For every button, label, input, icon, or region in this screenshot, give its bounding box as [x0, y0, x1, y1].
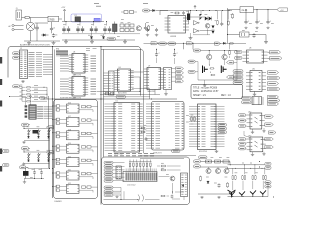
capacitor C6 pair [90, 22, 98, 33]
wire ground rail [24, 40, 60, 42]
IC U12 label [248, 111, 251, 113]
module box relay outputs [54, 100, 98, 199]
IC U2 opto driver [165, 16, 190, 39]
net label [218, 131, 227, 134]
wire [97, 92, 161, 95]
resistor R15 [160, 195, 165, 197]
IC U4 74HC595 [69, 52, 88, 77]
resistor fan R6 [22, 86, 47, 88]
ground [164, 90, 168, 96]
power flag +5V [277, 8, 288, 12]
title block [191, 85, 243, 99]
net label [235, 50, 243, 53]
svg-text:62LV256: 62LV256 [199, 151, 208, 153]
net label [20, 166, 29, 169]
wire rows [113, 163, 125, 181]
arrow label [269, 131, 277, 134]
net label [235, 56, 243, 59]
LCD connector J5 [123, 169, 157, 182]
wire bottom rail [62, 39, 135, 41]
net rows [91, 56, 97, 71]
crystal X1 [23, 167, 29, 178]
resistor R26 [227, 11, 229, 26]
net label [239, 138, 247, 141]
diode D15 [48, 160, 50, 162]
svg-text:J2: J2 [20, 48, 22, 50]
diode D5 [152, 9, 168, 15]
wire horizontal mid [44, 98, 177, 100]
arrow label [265, 145, 274, 148]
ground [27, 41, 31, 44]
capacitor C15 [266, 20, 272, 29]
capacitor C19 [145, 137, 148, 141]
wire [246, 10, 268, 20]
ground [251, 152, 254, 156]
diode D23 [223, 42, 234, 44]
IC U5 74HC595 [69, 75, 88, 100]
IC U11 ULN2003 [246, 71, 266, 92]
arrow label [227, 61, 238, 64]
wire rail [198, 193, 232, 195]
svg-text:K1: K1 [75, 15, 77, 17]
transistor Q7 [224, 168, 229, 173]
wire [233, 181, 268, 197]
ground [189, 37, 193, 40]
net rows [37, 106, 43, 118]
wire rows [44, 106, 53, 118]
connector J2 DB9 [20, 48, 28, 78]
arrow label [215, 42, 221, 45]
resistor R11 [191, 116, 196, 121]
ground [264, 41, 268, 44]
power flag +12V [61, 7, 66, 21]
svg-text:LM358: LM358 [170, 36, 177, 38]
transformer TR1 primary wires [9, 24, 24, 30]
arrow label TX [172, 67, 184, 70]
resistor R12 [140, 127, 145, 133]
net label [188, 70, 198, 73]
wire [184, 40, 228, 49]
capacitor C13 [244, 20, 250, 29]
relay K1 [75, 15, 81, 22]
connector J3 [164, 68, 172, 90]
net label [233, 81, 243, 84]
diode D3 [90, 34, 92, 39]
svg-text:U8: U8 [249, 48, 251, 50]
wire [62, 21, 104, 23]
net label POWER [3, 150, 10, 153]
net label [22, 147, 31, 150]
IC U8 label [249, 48, 251, 50]
switch SW5 [38, 153, 41, 160]
net stub [0, 57, 2, 64]
arrow label [47, 151, 54, 154]
IC U11 label [252, 69, 255, 71]
ground [23, 179, 26, 184]
capacitor C7 pair [103, 22, 111, 33]
resistor network RN1 [56, 49, 68, 57]
opto relay group G4 [52, 143, 97, 153]
svg-text:RN1: RN1 [56, 49, 59, 51]
capacitor C18 [173, 49, 179, 56]
opto relay group G5 [52, 156, 97, 166]
net label [107, 37, 116, 40]
arrow label [268, 95, 279, 98]
wire [104, 72, 151, 97]
resistor R16 [206, 160, 212, 163]
inner box edge [101, 49, 144, 153]
svg-text:74HC373: 74HC373 [153, 153, 162, 155]
arrow label [187, 42, 194, 45]
capacitor C10 [146, 28, 149, 36]
diode D12 [48, 136, 50, 138]
resistor fan R8 [22, 93, 47, 95]
selection highlight box [71, 14, 102, 22]
arrow label [268, 102, 279, 105]
wire rail bottom [228, 195, 269, 198]
resistor R2 row [120, 29, 134, 32]
wire rail [201, 162, 231, 165]
wire rail [24, 140, 50, 142]
wire rows [60, 79, 69, 94]
wire rows to bus [43, 55, 53, 75]
switch SW4 [28, 153, 31, 160]
ground [64, 40, 68, 43]
regulator U9 7805 [48, 16, 62, 22]
resistor R20 [227, 182, 229, 188]
svg-text:MAX232: MAX232 [148, 90, 157, 93]
transistor Q9 [229, 191, 235, 196]
capacitor C11 [155, 28, 158, 36]
ground up [22, 163, 25, 166]
transistor Q4 [170, 176, 175, 181]
wire rows [60, 56, 69, 71]
opto relay group G7 [52, 183, 97, 193]
bridge rectifier B1 [26, 18, 34, 42]
opto relay group G1 [52, 103, 97, 113]
transistor Q14 [222, 51, 227, 60]
arrow label RX [172, 71, 184, 74]
svg-text:ALIMENTATION SECTEUR 230V: ALIMENTATION SECTEUR 230V [20, 44, 50, 47]
power flag [194, 5, 196, 8]
resistor R1 row [120, 24, 134, 27]
net stub [0, 101, 2, 107]
net label [22, 123, 31, 126]
arrow label [268, 76, 281, 79]
svg-text:U6: U6 [119, 67, 121, 69]
arrow label CTS [172, 80, 184, 83]
wire [10, 97, 31, 106]
arrow label [265, 137, 274, 140]
wire [28, 167, 50, 168]
junction [52, 46, 102, 100]
fuse F1 [25, 16, 48, 18]
module box display [102, 157, 190, 205]
wire [228, 35, 267, 41]
capacitor column [25, 105, 28, 117]
wire rail [24, 163, 50, 165]
net label [239, 119, 247, 122]
resistor R30 pair [121, 11, 137, 14]
arrow label [268, 87, 281, 90]
transistor Q6 [215, 167, 220, 174]
resistor R23 [252, 165, 256, 180]
diode D6 zener [187, 11, 190, 25]
ground [200, 196, 203, 199]
resistor R14 [161, 169, 166, 171]
svg-text:U17: U17 [68, 116, 71, 118]
svg-text:U21: U21 [68, 170, 71, 172]
svg-text:78L05: 78L05 [241, 10, 248, 12]
net label [239, 142, 247, 145]
ground [123, 40, 127, 43]
net rows [91, 79, 97, 94]
arrow label [265, 115, 274, 118]
net label top [94, 4, 148, 7]
net label [40, 97, 46, 100]
diode D10 [28, 136, 30, 138]
IC U1 AT89S52 [105, 101, 143, 156]
net label [159, 42, 167, 45]
resistor R24 [262, 168, 266, 180]
wire [140, 156, 196, 159]
capacitor C1 [35, 23, 48, 41]
ground [52, 41, 56, 44]
capacitor C17 [155, 49, 161, 56]
net label [13, 56, 20, 59]
net label [239, 114, 247, 117]
wire [48, 96, 50, 168]
led D7 [205, 17, 208, 21]
resistor R22 [242, 165, 246, 180]
wire rail [228, 167, 265, 170]
svg-text:U18: U18 [68, 130, 71, 132]
arrow label [265, 123, 274, 126]
switch SW2 [38, 129, 41, 136]
net label [3, 164, 10, 167]
opto relay group G3 [52, 130, 97, 140]
net label [218, 123, 227, 126]
net label [168, 42, 176, 45]
svg-text:REV : 1.0: REV : 1.0 [221, 95, 232, 97]
ground [21, 80, 25, 83]
ground [115, 196, 118, 198]
net label [265, 181, 271, 184]
wire [144, 42, 247, 44]
power flag [29, 95, 31, 99]
svg-text:CLAVIER: CLAVIER [54, 200, 62, 203]
ground [251, 129, 254, 134]
net name rows 2 [36, 52, 42, 76]
transistor Q10 [239, 191, 245, 196]
capacitor C9 [182, 11, 185, 15]
wire [190, 11, 212, 31]
net label GND [188, 60, 198, 63]
module label [60, 97, 76, 100]
IC U20 DIP resnet [29, 105, 36, 119]
IC U14 EEPROM [152, 102, 185, 155]
module box CPU board [8, 47, 141, 96]
resistor R4 [174, 12, 180, 14]
arrow label [151, 42, 158, 45]
wire keypad bus [48, 128, 51, 169]
capacitor C14 [255, 20, 261, 29]
resistor fan R10 [22, 100, 47, 102]
wire rows [113, 187, 121, 195]
resistor R21 [232, 168, 236, 180]
connector J7 [109, 71, 115, 95]
arrow label [268, 57, 283, 60]
svg-text:C3: C3 [55, 35, 57, 37]
capacitor C2 [50, 22, 55, 31]
net label [239, 147, 247, 150]
logic gate U3A [194, 21, 200, 26]
resistor R17 [215, 160, 221, 163]
component value labels [20, 11, 274, 183]
wire [150, 58, 175, 100]
wire [62, 32, 140, 35]
svg-text:TITLE : mO2am PC808: TITLE : mO2am PC808 [193, 87, 218, 89]
net label VCC2 [265, 162, 271, 165]
arrow label [268, 82, 279, 85]
bus vertical mid pair [101, 47, 104, 205]
net label [242, 101, 252, 104]
transistor Q11 [250, 190, 256, 195]
module label bottom [54, 200, 62, 203]
wire rows [146, 104, 152, 148]
diode D4 [102, 34, 104, 39]
capacitor C16 [252, 33, 255, 37]
svg-text:C2: C2 [53, 28, 55, 30]
arrow label [268, 71, 279, 74]
IC U7 MAX232 [144, 66, 164, 93]
resistor R25 [216, 11, 218, 26]
net label GND2 [265, 166, 271, 169]
capacitor C4 pair [62, 22, 70, 33]
transistor Q12 [260, 190, 266, 195]
mosfet Q15 [203, 66, 208, 74]
capacitor C20 [33, 169, 36, 175]
capacitor C23 [217, 183, 220, 187]
opto relay group G2 [52, 116, 97, 126]
resistor R18 [223, 160, 229, 163]
capacitor C5 pair [76, 22, 84, 33]
net stub [0, 79, 2, 85]
wire [198, 51, 237, 81]
svg-text:U7: U7 [148, 66, 150, 68]
net name rows [29, 52, 35, 76]
wire rows [104, 73, 109, 94]
ground [215, 150, 219, 153]
capacitor C22 [171, 195, 174, 199]
net labels col 2 [104, 186, 113, 197]
capacitor C21 [40, 169, 43, 175]
arrow label [268, 51, 281, 54]
resistor R19 [200, 176, 202, 182]
wire [145, 183, 184, 200]
wire vcc feed [228, 8, 241, 40]
diode D16 zener [207, 181, 209, 183]
ground [203, 80, 207, 87]
trimmer RV2 [181, 173, 188, 197]
logic gate U3B [194, 29, 200, 34]
regulator U10 78L05 [240, 7, 277, 13]
switch SW1 [28, 129, 31, 136]
wire [244, 131, 250, 138]
diode D11 [38, 136, 40, 138]
transistor Q13 [207, 51, 212, 60]
label [127, 185, 135, 187]
resistor R5 [232, 13, 234, 19]
resistor R29 [229, 43, 231, 58]
capacitor C8 [144, 23, 147, 30]
wire [104, 193, 139, 200]
ground [262, 152, 265, 156]
resistor fan R7 [22, 90, 47, 92]
net label [233, 70, 243, 73]
buzzer BZ1 [33, 130, 39, 134]
resistor R28 [210, 72, 215, 76]
net stub [0, 149, 2, 155]
switch SW3 [48, 129, 51, 136]
bus net dashes [86, 48, 97, 50]
svg-text:SORTIES RELAIS: SORTIES RELAIS [60, 97, 76, 100]
svg-text:U22: U22 [68, 183, 71, 185]
diode D20 zener pair [200, 11, 203, 21]
transistor Q8 [228, 190, 236, 197]
net label [218, 127, 227, 130]
capacitor C12 [220, 11, 223, 27]
led D21 [212, 26, 215, 31]
transistor Q5 [206, 167, 211, 174]
net label [239, 124, 247, 127]
arrow label RTS [172, 75, 184, 78]
IC U8 6N137 [243, 50, 268, 63]
net label [199, 156, 208, 159]
svg-text:U4: U4 [73, 52, 75, 54]
arrow label [268, 99, 281, 102]
svg-text:U20: U20 [68, 156, 71, 158]
mosfet Q16 [221, 66, 226, 74]
led D9 [240, 32, 250, 37]
svg-text:J1: J1 [16, 8, 18, 10]
IC U15 RAM 6264 [189, 104, 225, 153]
ground [90, 40, 94, 43]
wire rail [201, 167, 228, 168]
resistor fan R9 [22, 97, 47, 99]
led D22 [212, 31, 215, 34]
ground [217, 196, 220, 199]
svg-text:U1: U1 [116, 101, 118, 103]
svg-text:DATE : 11/05/2011 13:57: DATE : 11/05/2011 13:57 [193, 90, 219, 93]
IC U13 TLP281 [247, 137, 266, 152]
diode D13 [28, 160, 30, 162]
net label [116, 95, 126, 98]
net label [172, 150, 181, 153]
resistor R3 [148, 25, 150, 31]
resistor network RN2 [129, 160, 152, 172]
svg-text:U5: U5 [73, 75, 75, 77]
arrow label [47, 126, 54, 129]
wire [157, 166, 181, 177]
connector J4 [252, 97, 264, 105]
transistor Q1 [136, 26, 141, 31]
wire rail [24, 175, 44, 179]
led D8 [209, 17, 212, 21]
svg-text:ADC0831: ADC0831 [118, 92, 128, 95]
IC U13 label [248, 135, 251, 137]
wire rail [24, 125, 48, 129]
